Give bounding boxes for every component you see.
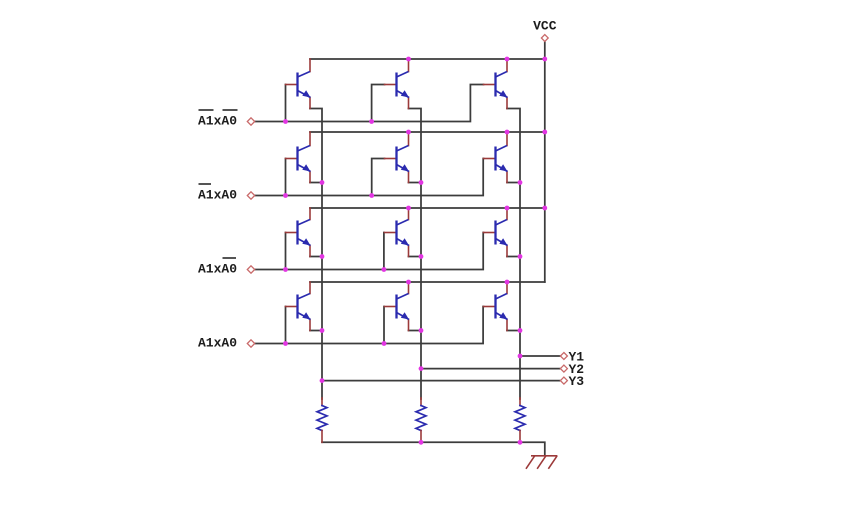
ground (526, 456, 556, 468)
junction rail4-c3 (505, 280, 510, 285)
wire emitter link Q11 (409, 330, 422, 332)
transistor Q6 (484, 132, 508, 183)
terminal input row 4 (247, 340, 254, 347)
wire base drop Q5 (372, 159, 385, 196)
wire output Y2 (421, 368, 560, 370)
junction rail1-c3 (505, 57, 510, 62)
transistor Q8 (385, 208, 410, 257)
svg-text:A1xA0: A1xA0 (198, 114, 237, 129)
transistor Q1 (286, 59, 311, 109)
junction input3-b1 (283, 267, 288, 272)
wire output Y1 (520, 355, 560, 357)
label input row 4 (198, 336, 237, 351)
junction input1-b2 (369, 119, 374, 124)
junction emitter-r3c1 (320, 254, 325, 259)
wire emitter bus column 2 (409, 109, 422, 400)
label input row 1 (198, 110, 238, 129)
label input row 3 (198, 258, 237, 277)
resistor R2 (416, 398, 426, 442)
wire emitter link Q6 (507, 182, 520, 184)
wire collector rail row 3 (310, 207, 545, 209)
wire emitter link Q12 (507, 330, 520, 332)
transistor Q11 (385, 282, 410, 331)
wire emitter bus column 1 (310, 109, 322, 400)
svg-text:Y3: Y3 (569, 374, 585, 389)
transistor Q3 (484, 59, 508, 109)
junction emitter-r4c3 (518, 328, 523, 333)
junction emitter-r2c2 (419, 180, 424, 185)
junction Y3 (320, 378, 325, 383)
resistor R3 (515, 398, 525, 442)
junction rail1-c2 (406, 57, 411, 62)
wire base drop Q10 (285, 307, 287, 344)
wire ground rail (322, 442, 545, 455)
wire emitter link Q10 (310, 330, 322, 332)
terminal output Y1 (560, 353, 567, 360)
junction emitter-r2c3 (518, 180, 523, 185)
transistor Q5 (385, 132, 410, 183)
transistor Q7 (286, 208, 311, 257)
junction rail2-c2 (406, 130, 411, 135)
junction rail3-c2 (406, 206, 411, 211)
junction input4-b1 (283, 341, 288, 346)
wire collector rail row 1 (310, 58, 545, 60)
wire input line row 2 (255, 159, 484, 196)
svg-text:A1xA0: A1xA0 (198, 262, 237, 277)
junction rail2-vcc (542, 130, 547, 135)
terminal output Y3 (560, 377, 567, 384)
junction emitter-r4c2 (419, 328, 424, 333)
terminal input row 2 (247, 192, 254, 199)
junction emitter-r3c3 (518, 254, 523, 259)
wire collector rail row 4 (310, 281, 545, 283)
transistor Q9 (484, 208, 508, 257)
wire emitter link Q7 (310, 256, 322, 258)
wire collector rail row 2 (310, 131, 545, 133)
wire VCC vertical net (544, 42, 546, 283)
wire base drop Q1 (285, 85, 287, 122)
svg-text:A1xA0: A1xA0 (198, 336, 237, 351)
junction input4-b2 (382, 341, 387, 346)
wire base drop Q11 (383, 307, 385, 344)
terminal input row 1 (247, 118, 254, 125)
junction Y1 (518, 354, 523, 359)
wire emitter link Q8 (409, 256, 422, 258)
wire input line row 1 (255, 85, 484, 122)
label input row 2 (198, 184, 237, 203)
junction gnd-r2 (419, 440, 424, 445)
wire emitter link Q5 (409, 182, 422, 184)
transistor Q4 (286, 132, 311, 183)
terminal output Y2 (560, 365, 567, 372)
junction gnd-r3 (518, 440, 523, 445)
wire base drop Q2 (372, 85, 385, 122)
junction rail1-vcc (542, 57, 547, 62)
junction emitter-r4c1 (320, 328, 325, 333)
wire emitter link Q4 (310, 182, 322, 184)
terminal input row 3 (247, 266, 254, 273)
junction rail2-c3 (505, 130, 510, 135)
junction input3-b2 (382, 267, 387, 272)
wire output Y3 (322, 380, 560, 382)
wire base drop Q4 (285, 159, 287, 196)
wire base drop Q7 (285, 233, 287, 270)
junction emitter-r2c1 (320, 180, 325, 185)
junction input2-b1 (283, 193, 288, 198)
junction rail4-c2 (406, 280, 411, 285)
junction Y2 (419, 366, 424, 371)
wire emitter link Q9 (507, 256, 520, 258)
junction emitter-r3c2 (419, 254, 424, 259)
svg-text:A1xA0: A1xA0 (198, 188, 237, 203)
junction rail3-vcc (542, 206, 547, 211)
junction input2-b2 (369, 193, 374, 198)
wire base drop Q8 (383, 233, 385, 270)
svg-text:VCC: VCC (533, 19, 557, 34)
transistor Q2 (385, 59, 410, 109)
wire input line row 4 (255, 307, 484, 344)
junction rail3-c3 (505, 206, 510, 211)
junction input1-b1 (283, 119, 288, 124)
transistor Q10 (286, 282, 311, 331)
terminal VCC (541, 35, 548, 42)
resistor R1 (317, 398, 327, 442)
wire emitter bus column 3 (507, 109, 520, 400)
wire input line row 3 (255, 233, 484, 270)
transistor Q12 (484, 282, 508, 331)
